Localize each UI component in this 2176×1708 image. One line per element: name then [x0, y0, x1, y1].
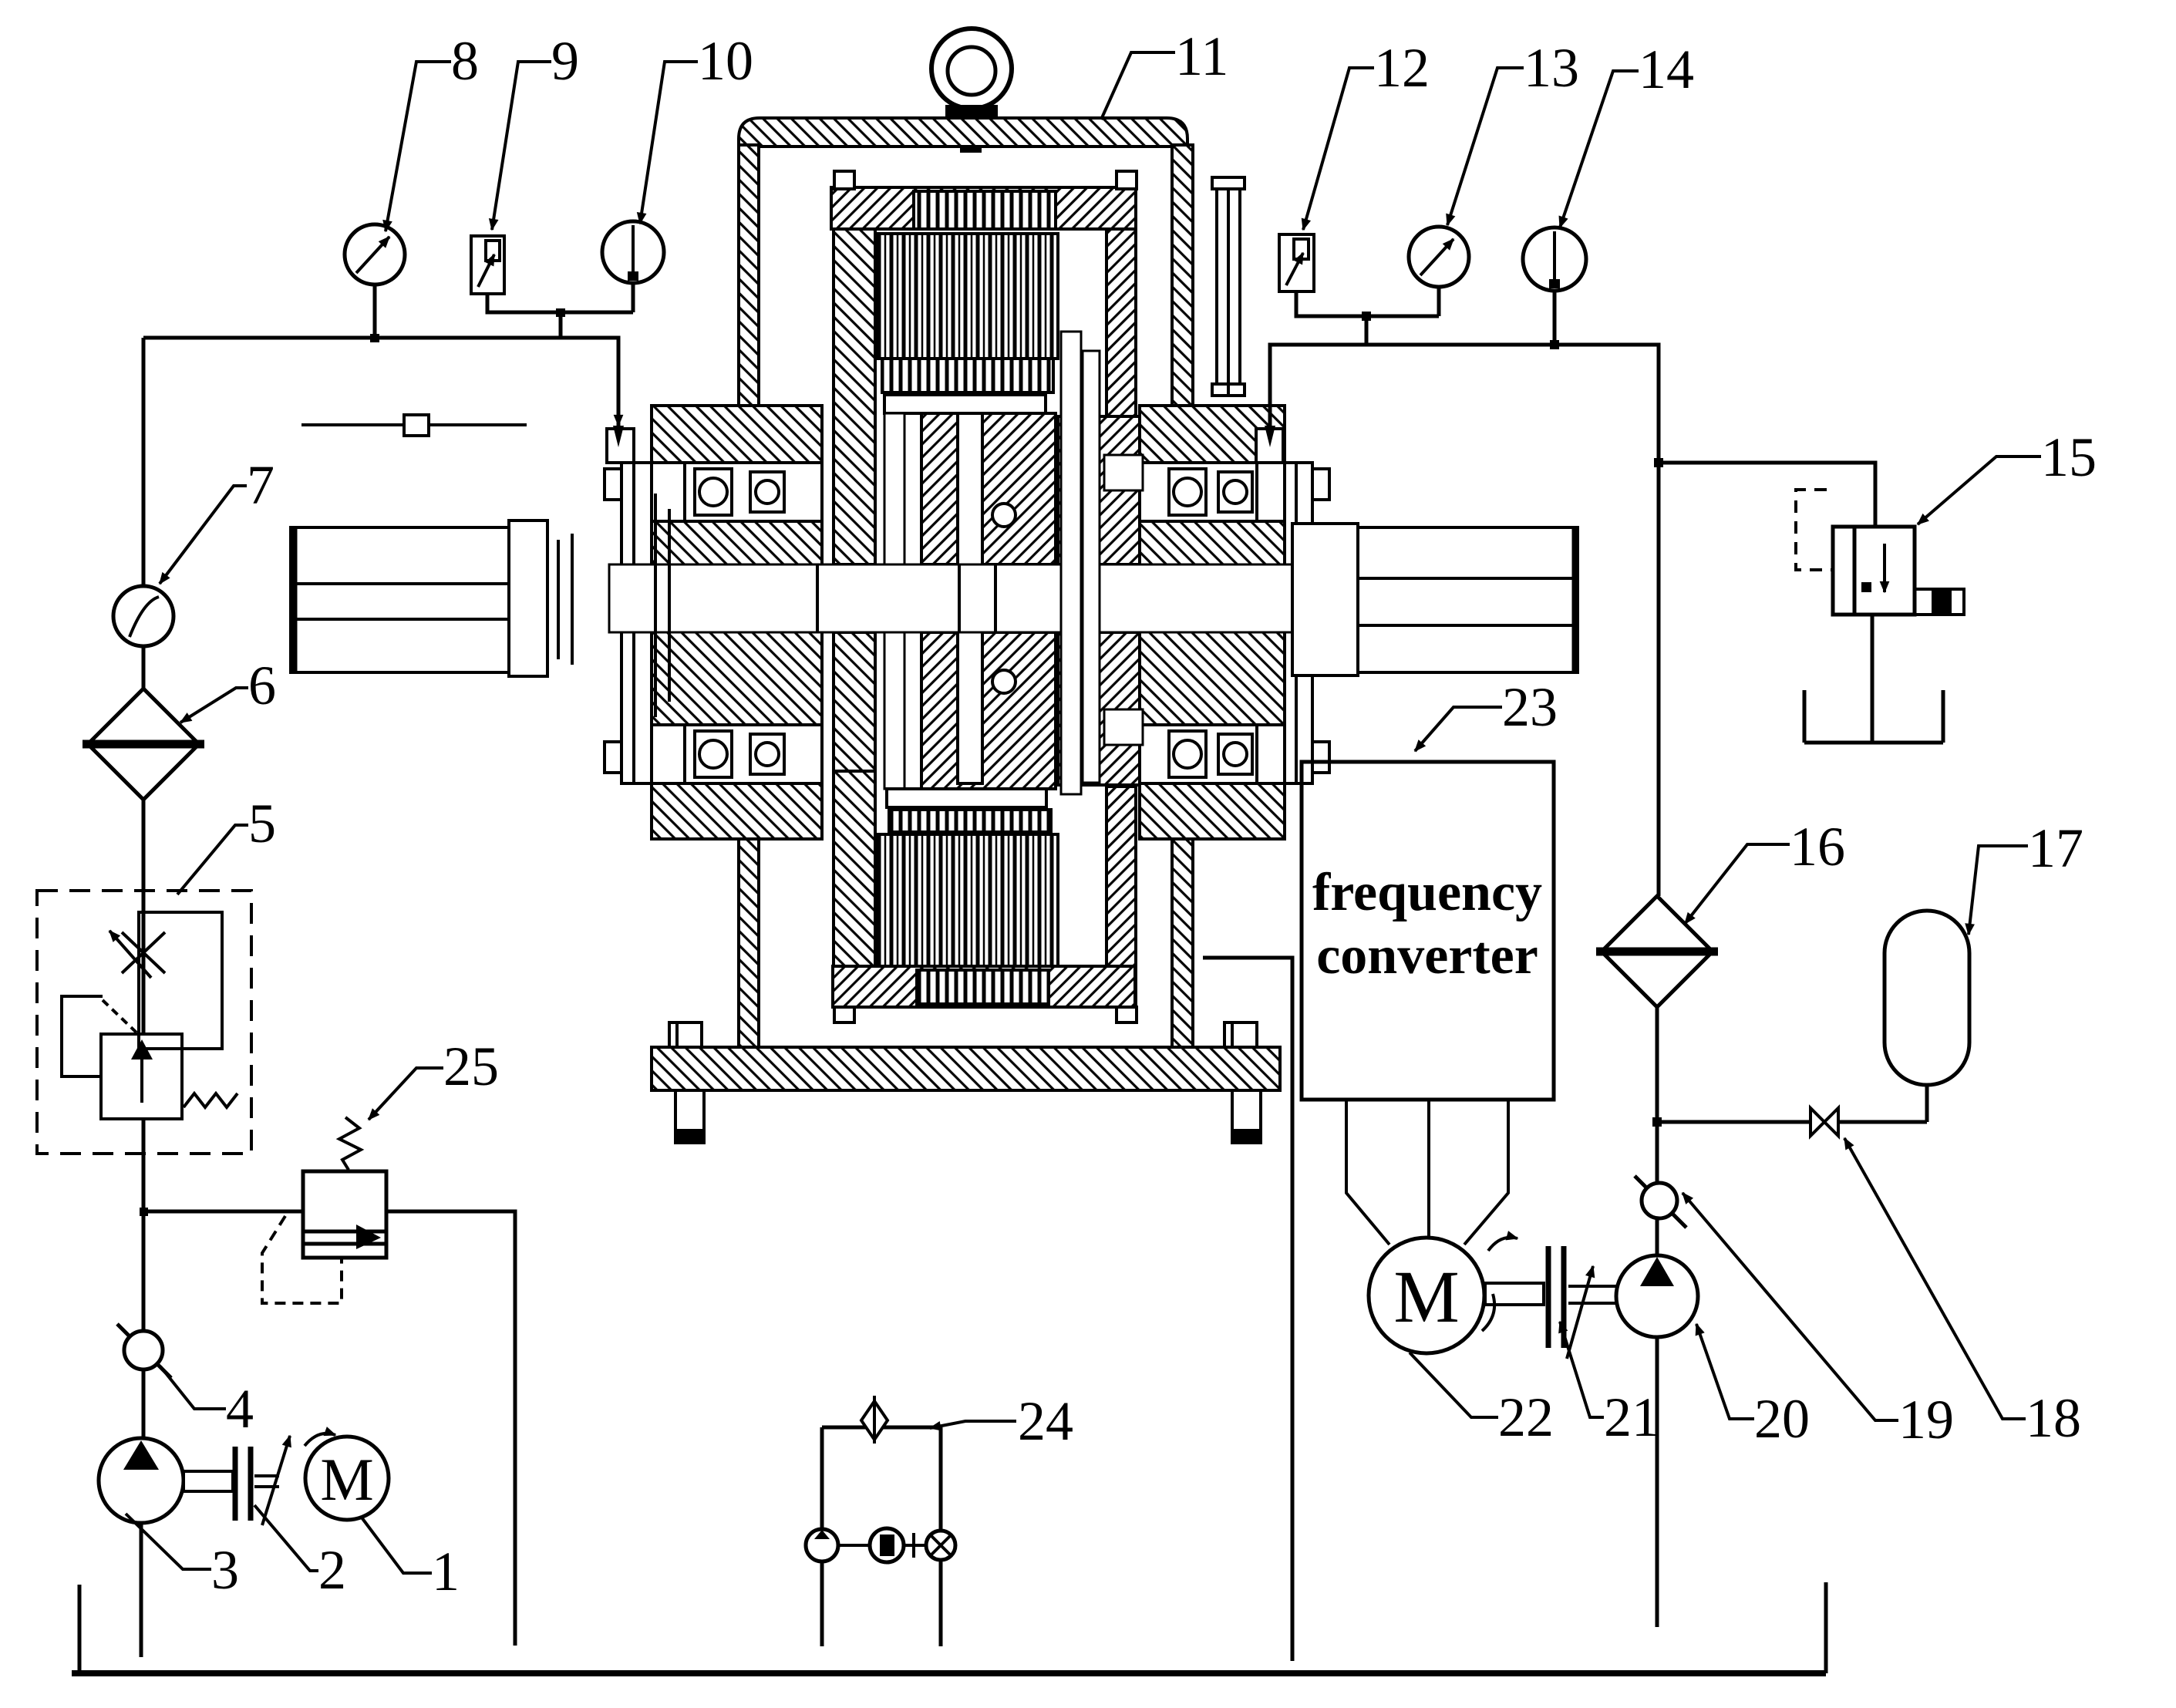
pump 3: [99, 1438, 184, 1523]
label 9: [492, 30, 579, 230]
pump20 drain: [1656, 1337, 1659, 1627]
svg-text:13: 13: [1524, 37, 1579, 99]
svg-text:14: 14: [1639, 39, 1694, 100]
frequency converter 23: [1302, 762, 1554, 1100]
upper pack right column: [1107, 229, 1136, 544]
label 4: [160, 1366, 254, 1440]
left inlet port: [607, 429, 634, 463]
lower pack bottom beam: [833, 966, 1137, 1022]
label 13: [1447, 37, 1579, 225]
upper clutch pack top beam: [831, 171, 1137, 229]
wire 10 down: [632, 283, 635, 312]
housing left lower wall: [739, 839, 759, 1047]
motor 1: [305, 1433, 389, 1520]
svg-text:2: 2: [318, 1539, 346, 1601]
svg-text:1: 1: [432, 1541, 460, 1602]
label 19: [1683, 1193, 1954, 1450]
right flange bottom: [1140, 783, 1285, 839]
housing left wall: [739, 145, 759, 406]
label 2: [254, 1505, 346, 1601]
pump 20: [1616, 1255, 1698, 1337]
filter F6: [83, 689, 204, 800]
oil level indicator: [301, 415, 527, 436]
label 23: [1415, 676, 1558, 751]
svg-text:converter: converter: [1316, 926, 1538, 985]
accumulator line: [1657, 1120, 1927, 1124]
flow gauge 14: [1523, 227, 1586, 291]
tank under valve 15: [1804, 690, 1943, 743]
label 25: [369, 1036, 499, 1120]
pressure gauge 8: [345, 224, 405, 285]
label 16: [1685, 816, 1845, 924]
lower pressure plate: [887, 789, 1046, 807]
right sleeve below shaft: [1140, 631, 1285, 725]
junction 12-13 to bus: [1365, 316, 1369, 345]
relief valve 5: [37, 891, 251, 1154]
relief valve 25: [262, 1117, 386, 1303]
pressure gauge 13: [1409, 227, 1469, 287]
pump3 drain to tank: [140, 1523, 143, 1657]
upper pack lower teeth row: [882, 359, 1053, 392]
wire to valve 15: [1659, 463, 1875, 527]
shutoff valve 18: [1811, 1108, 1838, 1136]
gauge 8 drop wire: [373, 285, 377, 338]
left flange top: [652, 406, 822, 463]
right bearing housing bottom: [1140, 725, 1257, 783]
svg-text:16: 16: [1790, 816, 1845, 878]
label 17: [1969, 817, 2083, 935]
machine drain wire: [1203, 958, 1292, 1661]
svg-text:12: 12: [1374, 37, 1430, 99]
actuator rod: [1061, 332, 1143, 794]
wire check19 to pump20: [1656, 1218, 1659, 1257]
rotor drum upper: [921, 413, 1056, 564]
svg-text:4: 4: [226, 1378, 254, 1440]
accumulator 17: [1885, 911, 1969, 1122]
label 1: [362, 1518, 460, 1602]
junction to valve 25: [143, 1210, 303, 1214]
filter 16: [1596, 896, 1718, 1007]
svg-text:15: 15: [2041, 426, 2097, 488]
valve 15 drain to tank: [1871, 615, 1875, 743]
label 14: [1560, 39, 1694, 227]
junction 9-10 to bus: [559, 312, 563, 338]
label 20: [1696, 1324, 1810, 1450]
central shaft bore white band: [609, 564, 1292, 632]
svg-text:frequency: frequency: [1312, 863, 1542, 922]
wire filter16 down: [1656, 1007, 1659, 1184]
label 5: [177, 793, 276, 894]
wire gauge7 to filter6: [142, 646, 146, 689]
svg-text:5: 5: [248, 793, 276, 854]
lower pack teeth row: [889, 810, 1051, 832]
right end cap: [1285, 463, 1329, 783]
label 8: [386, 30, 479, 231]
svg-text:M: M: [320, 1446, 373, 1513]
right output shaft: [1292, 524, 1578, 675]
svg-text:22: 22: [1498, 1386, 1554, 1448]
label 22: [1410, 1353, 1554, 1448]
label 10: [640, 30, 753, 224]
left seal stack: [558, 494, 669, 717]
right sleeve above shaft: [1140, 521, 1285, 566]
left bearing housing bottom: [685, 725, 822, 783]
svg-text:6: 6: [248, 655, 276, 716]
base bolt left: [669, 1022, 702, 1047]
hub step lines: [817, 564, 995, 632]
upper pack left column: [834, 229, 875, 564]
wire 9 down: [487, 294, 633, 312]
label 7: [160, 454, 275, 584]
right main vertical wire: [1657, 463, 1661, 896]
motor 22: [1369, 1238, 1517, 1353]
svg-text:20: 20: [1754, 1388, 1810, 1450]
left sleeve below shaft: [652, 631, 822, 725]
converter phase wires: [1346, 1100, 1508, 1245]
svg-text:11: 11: [1175, 25, 1228, 87]
sensor 9: [471, 236, 504, 294]
svg-text:3: 3: [211, 1539, 239, 1601]
svg-text:24: 24: [1018, 1390, 1073, 1452]
svg-text:17: 17: [2028, 817, 2083, 879]
wire 12 down: [1296, 291, 1439, 316]
lower clutch friction plates: [877, 834, 1058, 966]
pressure rod white: [884, 413, 904, 789]
svg-text:21: 21: [1604, 1386, 1659, 1448]
coupling 2: [184, 1436, 290, 1525]
check valve 19: [1635, 1176, 1686, 1228]
right inlet arrow: [1265, 426, 1275, 447]
svg-text:8: 8: [451, 30, 479, 92]
label 6: [180, 655, 276, 723]
tank right tick: [1824, 1582, 1828, 1673]
wire valve25 out to tank: [386, 1211, 515, 1646]
sensor 12: [1279, 234, 1314, 291]
left flange bottom: [652, 783, 822, 839]
level gauge plate right of housing: [1212, 177, 1245, 396]
rotor drum lower: [921, 632, 1056, 789]
wire left main vertical top: [142, 338, 146, 586]
svg-text:19: 19: [1898, 1389, 1954, 1450]
base bolt right: [1224, 1022, 1257, 1047]
top-right bus wire: [1270, 345, 1659, 463]
tank left tick: [78, 1585, 82, 1673]
flow gauge 10: [602, 221, 664, 283]
central bearing balls: [992, 504, 1016, 693]
svg-text:23: 23: [1502, 676, 1558, 738]
label 12: [1303, 37, 1430, 230]
left sleeve above shaft: [652, 521, 822, 566]
right flange top: [1140, 406, 1285, 463]
svg-text:M: M: [1393, 1255, 1459, 1338]
svg-text:7: 7: [247, 454, 275, 516]
label 18: [1844, 1138, 2081, 1449]
machine foot right: [1232, 1090, 1261, 1143]
left end cap: [605, 463, 652, 783]
actuator block lower right: [1058, 632, 1166, 785]
label 24: [930, 1390, 1073, 1452]
solenoid valve 15: [1796, 490, 1964, 615]
left output shaft: [291, 520, 547, 676]
actuator block upper right: [1058, 416, 1166, 564]
wire check4 to pump3: [142, 1369, 146, 1440]
machine foot left: [675, 1090, 704, 1143]
housing right wall: [1172, 145, 1193, 1047]
left inlet arrow: [617, 403, 621, 426]
base plate: [652, 1047, 1280, 1090]
svg-text:10: 10: [698, 30, 753, 92]
right bearing housing top: [1140, 463, 1257, 521]
label 15: [1918, 426, 2097, 524]
top-left bus wire: [143, 338, 618, 423]
svg-text:25: 25: [443, 1036, 499, 1097]
upper pressure plate: [884, 395, 1046, 413]
right inlet port: [1256, 429, 1283, 463]
wire filter6 to valve5: [142, 800, 146, 909]
wire 14 down: [1553, 291, 1557, 345]
rotor drum white slot: [958, 413, 982, 783]
check valve 4: [117, 1324, 171, 1378]
lower pack right column: [1107, 787, 1136, 1007]
upper clutch friction plates: [877, 234, 1058, 359]
label 3: [126, 1514, 239, 1601]
coupling 21: [1485, 1246, 1616, 1359]
label 21: [1560, 1322, 1659, 1448]
left bearing housing top: [685, 463, 822, 521]
wire valve5 to junction: [142, 1154, 146, 1332]
svg-text:9: 9: [551, 30, 579, 92]
wire 13 down: [1437, 287, 1441, 316]
lifting eye bolt: [931, 29, 1012, 151]
tank bottom line: [72, 1670, 1826, 1676]
breather assembly 24: [806, 1396, 955, 1646]
svg-text:18: 18: [2026, 1387, 2081, 1449]
housing top slab 11: [739, 118, 1187, 147]
pressure gauge 7: [113, 586, 173, 646]
lower pack left column: [834, 771, 875, 1007]
label 11: [1101, 25, 1228, 120]
